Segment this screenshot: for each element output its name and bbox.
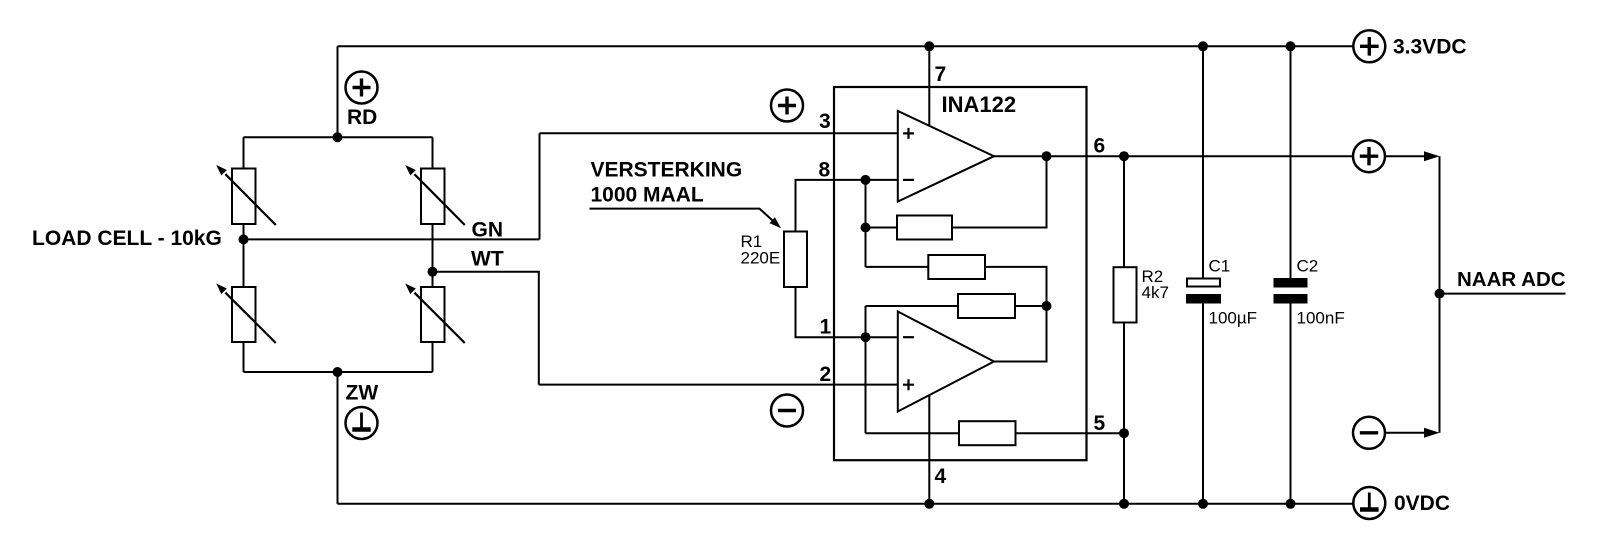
wire: vertical from Rg3 row through pin 1 to Rf2 row	[865, 306, 867, 433]
wire: + output arrow shaft	[1385, 155, 1427, 157]
svg-text:0VDC: 0VDC	[1394, 492, 1450, 515]
svg-text:INA122: INA122	[942, 92, 1017, 117]
IC U1 INA122 outline box	[834, 87, 1087, 460]
svg-text:5: 5	[1094, 412, 1106, 435]
wire: NAAR ADC stub	[1440, 293, 1566, 295]
wire: bridge top rail	[244, 136, 433, 138]
op-amp A1 plus input mark	[903, 128, 914, 139]
wire: Rf2 right lead out of box to pin 5 node	[1016, 432, 1125, 434]
junction: C2 bottom rail	[1286, 499, 1296, 509]
resistor R1 body	[784, 232, 807, 288]
svg-text:LOAD CELL - 10kG: LOAD CELL - 10kG	[32, 227, 222, 250]
junction: pin 1 row	[861, 332, 871, 342]
wire: R2 bottom lead down to bottom rail	[1123, 323, 1125, 504]
wire: Rg3 right lead	[1015, 305, 1047, 307]
wire: pin 4 drop from op-amp A2 to bottom rail	[928, 395, 930, 504]
power symbol: + circle label at pin 3 input	[771, 90, 803, 122]
junction: pin7 on top rail	[924, 41, 934, 51]
wire: bridge left column middle	[243, 224, 245, 287]
junction: A1 output node	[1042, 151, 1052, 161]
arrowhead: - output to ADC bus	[1424, 428, 1440, 438]
power symbol: - circle at ADC negative output	[1353, 417, 1385, 449]
junction: C1 on top rail	[1198, 41, 1208, 51]
capacitor C2 bottom plate (solid)	[1274, 294, 1308, 304]
junction: pin 8 row	[861, 175, 871, 185]
wire: GN riser to pin 3 row	[539, 133, 541, 239]
wire: pin 2 input row	[539, 384, 898, 386]
svg-text:3: 3	[819, 110, 831, 133]
wire: VERSTERKING annotation leader line	[590, 209, 774, 222]
power symbol: + circle at 3.3VDC	[1353, 30, 1385, 62]
junction: RD node on bridge top	[333, 132, 343, 142]
op-amp A2 triangle (lower)	[898, 312, 994, 412]
resistor Rg3 body	[958, 294, 1015, 318]
resistor bridge lower-left (strain gauge body)	[232, 287, 256, 342]
junction: pin 6 / R2 top	[1119, 151, 1129, 161]
resistor bridge lower-right (strain gauge body)	[421, 287, 445, 342]
wire: bridge right column upper	[432, 137, 434, 168]
resistor bridge upper-left (strain gauge body)	[232, 169, 256, 225]
svg-text:VERSTERKING: VERSTERKING	[591, 159, 743, 182]
svg-text:220E: 220E	[741, 249, 781, 268]
wire: output row pin 6 from A1 apex to + output circle	[994, 155, 1354, 157]
wire: drop from top rail to bridge top (RD node)	[337, 46, 339, 137]
junction: GN node left of bridge	[239, 234, 249, 244]
wire: bridge middle rail (GN net)	[244, 238, 540, 240]
capacitor C2 top plate (solid)	[1274, 278, 1308, 288]
resistor R2 body	[1114, 267, 1137, 322]
wire: R2 top lead from output row	[1123, 156, 1125, 267]
junction: Rf1 row on vertical	[861, 223, 871, 233]
strain gauge arrow: upper-left bridge resistor	[216, 165, 276, 225]
svg-text:3.3VDC: 3.3VDC	[1393, 36, 1467, 59]
wire: R1 bottom lead to pin 1 row	[796, 287, 898, 337]
wire: C2 top lead from top rail	[1290, 46, 1292, 278]
svg-text:NAAR ADC: NAAR ADC	[1457, 268, 1566, 291]
junction: ZW node on bridge bottom	[333, 367, 343, 377]
wire: bridge bottom rail (ZW node)	[244, 371, 433, 373]
op-amp A2 plus input mark	[903, 379, 914, 390]
wire: bridge right column middle	[432, 224, 434, 287]
wire: Rg3 left lead	[866, 305, 959, 307]
op-amp A1 minus input mark	[903, 179, 914, 181]
svg-text:4: 4	[935, 465, 947, 488]
capacitor C1 bottom plate (solid)	[1186, 294, 1221, 304]
svg-text:7: 7	[935, 63, 947, 86]
svg-text:6: 6	[1094, 135, 1106, 158]
arrowhead: VERSTERKING leader pointing to R1	[770, 217, 782, 228]
wire: Rg2 right lead down to node	[985, 267, 1047, 306]
capacitor C1 top plate (polarized, hollow)	[1187, 279, 1220, 287]
junction: Rg2/Rg3/A2-output node	[1042, 301, 1052, 311]
wire: WT row from bridge	[433, 272, 539, 385]
arrowhead: + output to ADC bus	[1424, 151, 1440, 161]
wire: C2 bottom lead to bottom rail	[1290, 304, 1292, 504]
junction: pin 5 / R2 line	[1119, 428, 1129, 438]
power symbol: + circle at ADC positive output	[1353, 140, 1385, 172]
svg-text:1000 MAAL: 1000 MAAL	[591, 184, 704, 207]
wire: C1 bottom lead to bottom rail	[1202, 304, 1204, 504]
svg-text:ZW: ZW	[346, 382, 379, 405]
power symbol: - circle label at pin 2 input	[771, 395, 803, 427]
strain gauge arrow: lower-right bridge resistor	[405, 284, 465, 344]
ground symbol: circle at 0VDC	[1353, 487, 1385, 519]
svg-text:GN: GN	[472, 219, 504, 242]
svg-text:100µF: 100µF	[1209, 308, 1258, 327]
svg-text:100nF: 100nF	[1297, 308, 1345, 327]
junction: pin 4 bottom rail	[924, 499, 934, 509]
svg-text:2: 2	[820, 363, 832, 386]
svg-text:RD: RD	[347, 106, 377, 129]
svg-text:C2: C2	[1297, 257, 1319, 276]
wire: 3.3VDC top rail	[338, 45, 1354, 47]
wire: ADC vertical bus	[1439, 156, 1441, 433]
wire: feedback resistor Rf1 left lead	[866, 227, 898, 229]
resistor Rf1 body (A1 feedback)	[897, 216, 952, 240]
wire: Rf1 right lead up to output	[952, 156, 1047, 227]
op-amp A1 triangle (upper)	[898, 111, 994, 202]
ground symbol: circle at ZW	[346, 407, 378, 439]
wire: C1 top lead from top rail	[1202, 46, 1204, 278]
junction: C1 bottom rail	[1198, 499, 1208, 509]
wire: R1 top lead to pin 8 row	[796, 180, 898, 232]
junction: C2 on top rail	[1286, 41, 1296, 51]
wire: vertical from pin 8 junction down to Rg2 row	[865, 180, 867, 267]
svg-text:1: 1	[820, 315, 832, 338]
svg-text:4k7: 4k7	[1142, 283, 1169, 302]
strain gauge arrow: lower-left bridge resistor	[216, 284, 276, 344]
wire: bridge left column lower	[243, 342, 245, 372]
resistor Rg2 body	[928, 255, 985, 279]
wire: ZW drop to 0VDC bottom rail	[337, 372, 339, 504]
wire: bridge right column lower	[432, 342, 434, 372]
wire: Rg2 left lead	[866, 266, 929, 268]
wire: Rf2 left lead	[866, 432, 960, 434]
resistor bridge upper-right (strain gauge body)	[421, 169, 445, 225]
op-amp A2 minus input mark	[903, 336, 914, 338]
svg-text:WT: WT	[471, 248, 504, 271]
wire: 0VDC bottom rail	[338, 503, 1354, 505]
resistor Rf2 body (A2 feedback, to pin 5)	[959, 421, 1016, 445]
junction: R2 bottom rail	[1119, 499, 1129, 509]
wire: pin 7 supply drop into op-amp A1	[928, 46, 930, 126]
wire: bridge left column upper	[243, 137, 245, 168]
power symbol: + circle at RD	[346, 72, 378, 104]
junction: NAAR ADC tap	[1435, 289, 1445, 299]
wire: A2 output up to resistor node	[994, 306, 1047, 362]
junction: WT node on bridge right column	[428, 267, 438, 277]
svg-text:C1: C1	[1209, 257, 1231, 276]
wire: - output arrow shaft	[1385, 432, 1427, 434]
strain gauge arrow: upper-right bridge resistor	[405, 165, 465, 225]
wire: pin 3 input row	[540, 132, 898, 134]
svg-text:8: 8	[819, 159, 831, 182]
